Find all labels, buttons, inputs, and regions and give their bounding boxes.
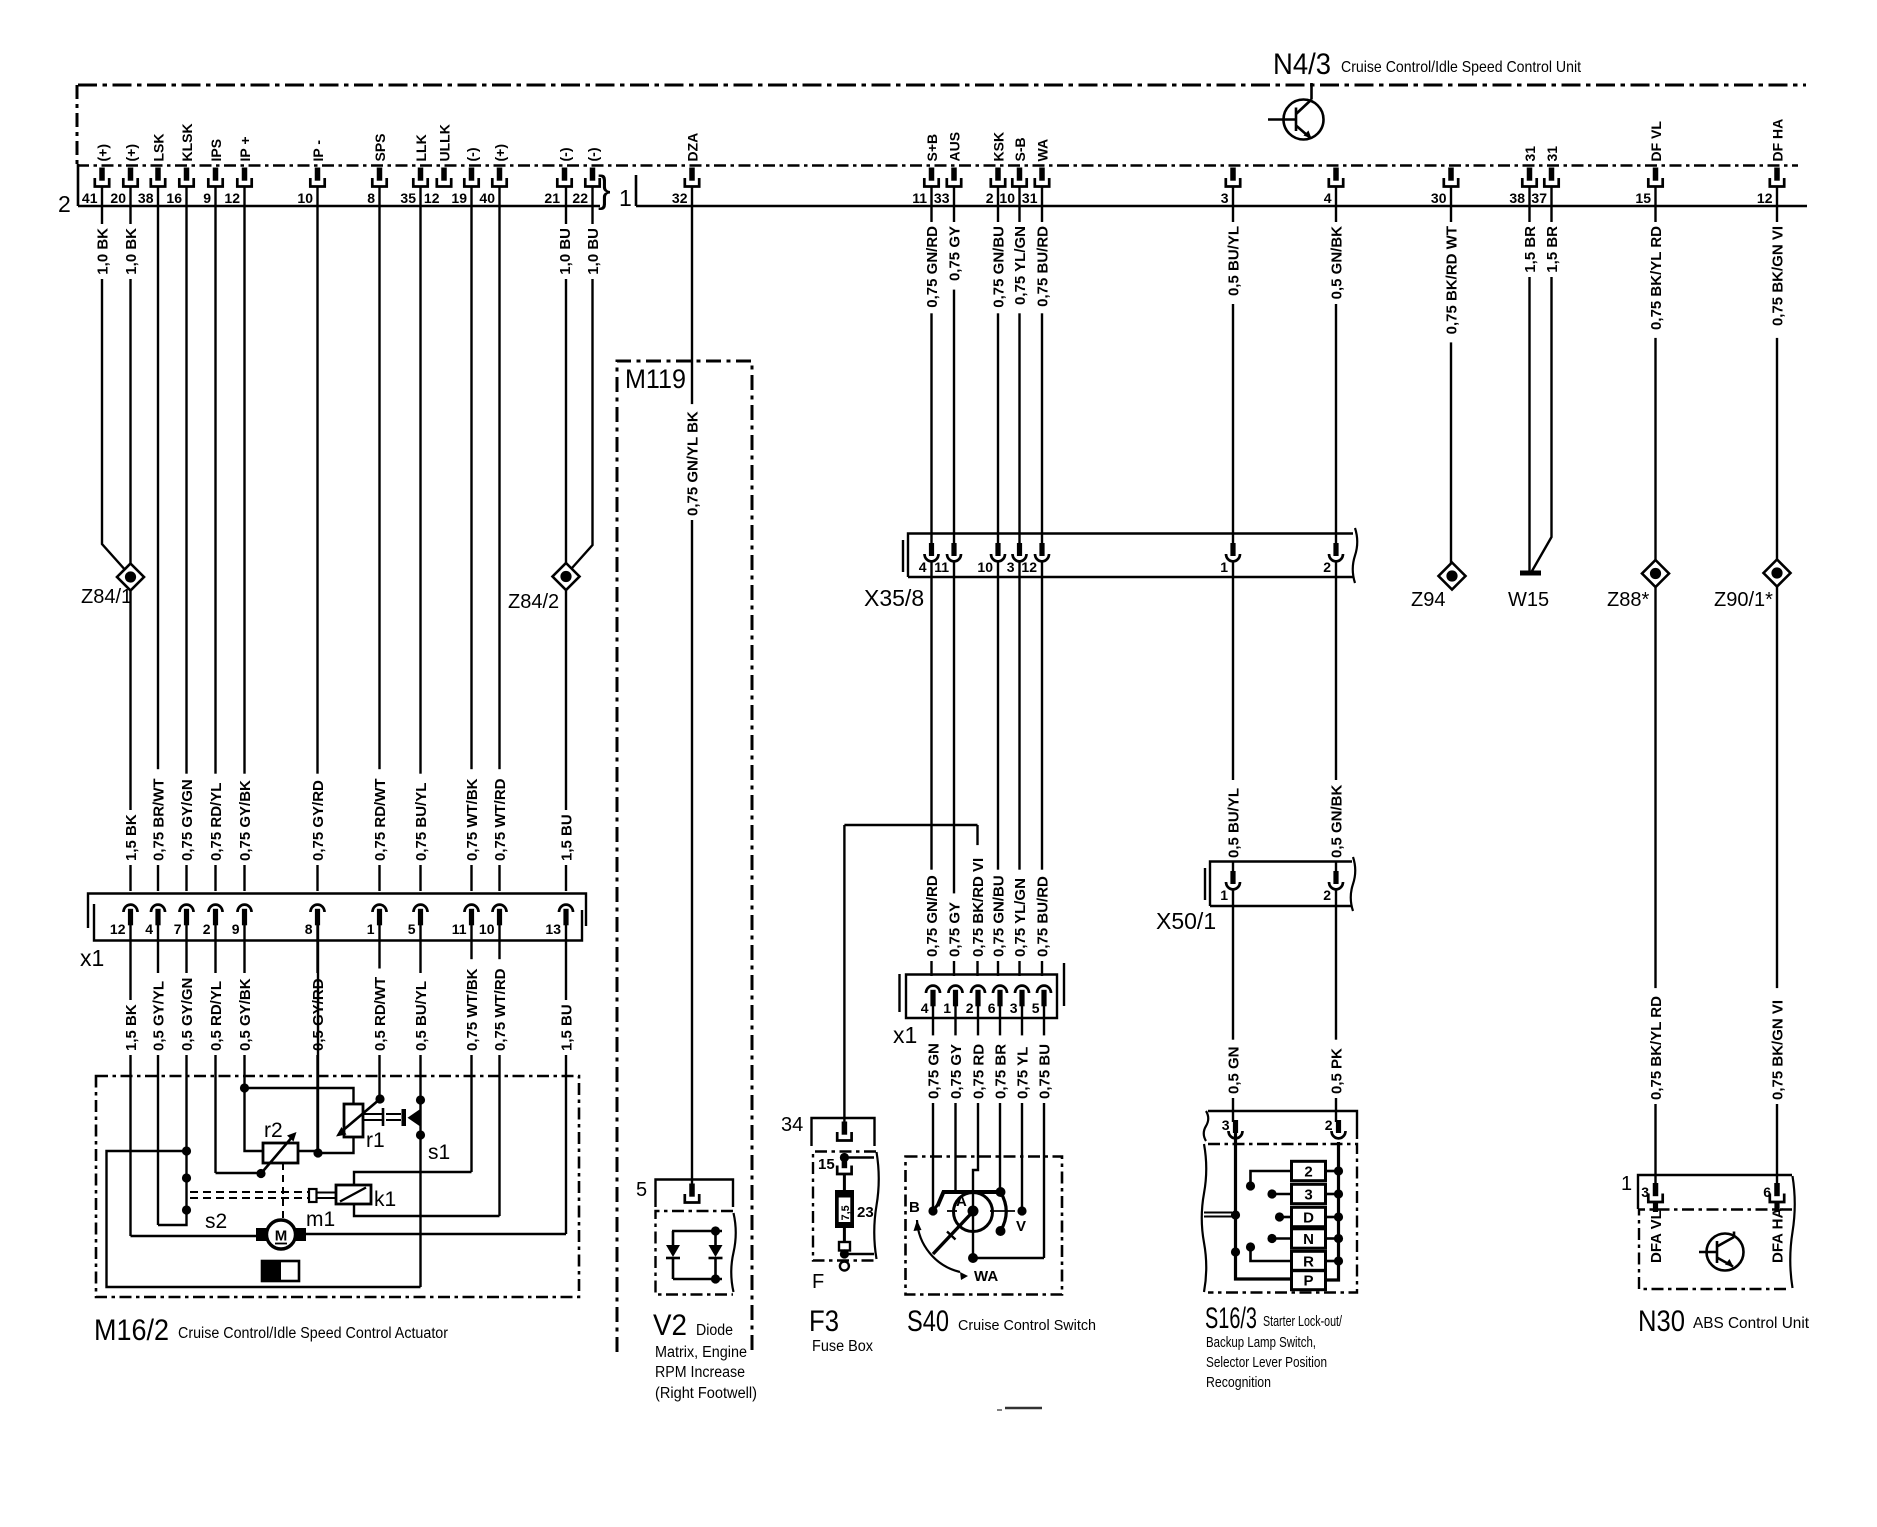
svg-text:W15: W15: [1508, 589, 1549, 611]
wire Z84/2 to connector x1 pin 13: [565, 590, 567, 891]
svg-text:0,75 BK/RD VI: 0,75 BK/RD VI: [970, 858, 987, 957]
wire 0,5 BU/YL from x1 into M16/2: [419, 925, 421, 1287]
S16/3 position resistor 2: [1292, 1161, 1326, 1180]
control unit N4/3 box bottom edge: [77, 164, 1798, 167]
S16/3 position resistor N: [1292, 1229, 1326, 1248]
svg-text:0,75 GY: 0,75 GY: [948, 1044, 965, 1099]
svg-text:23: 23: [857, 1204, 874, 1221]
wire 0,5 RD/YL from x1 into M16/2: [214, 925, 216, 1173]
svg-text:M16/2: M16/2: [94, 1314, 169, 1347]
wire from N4/3 pin 37 to W15: [1532, 187, 1552, 572]
svg-text:2: 2: [1304, 1164, 1312, 1181]
N30 transistor symbol: [1699, 1232, 1744, 1271]
svg-text:3: 3: [1010, 1000, 1018, 1016]
svg-text:3: 3: [1007, 559, 1015, 575]
svg-text:0,75 WT/BK: 0,75 WT/BK: [464, 968, 481, 1051]
engine M119 box: [617, 361, 752, 1352]
connector x1 pin 2: [209, 905, 223, 912]
svg-text:38: 38: [138, 190, 154, 206]
svg-text:S-B: S-B: [1012, 137, 1028, 161]
svg-text:P: P: [1303, 1273, 1313, 1290]
svg-text:0,75 YL: 0,75 YL: [1014, 1047, 1031, 1099]
svg-text:11: 11: [912, 190, 927, 206]
S16/3 position resistor 3: [1292, 1184, 1326, 1203]
diode 1: [672, 1231, 675, 1245]
F3 pin terminal upper: [842, 1122, 848, 1135]
svg-text:5: 5: [636, 1179, 647, 1201]
pin 9 (IPS) of N4/3: [213, 168, 219, 181]
S40 contact B: [928, 1206, 937, 1215]
wire 0,75 WT/BK from x1 into M16/2: [470, 925, 472, 1172]
connector x1 (S40) pin 5: [1037, 986, 1051, 993]
wire 0,5 PK from X50/1 to S16/3: [1335, 889, 1337, 1122]
svg-text:0,5 GY/YL: 0,5 GY/YL: [150, 981, 167, 1051]
svg-text:32: 32: [672, 190, 688, 206]
svg-text:38: 38: [1509, 190, 1525, 206]
svg-text:V: V: [1016, 1218, 1026, 1235]
wire r2 left terminal: [245, 1088, 264, 1151]
bus line section 1: [635, 175, 638, 206]
V2 internal bus: [672, 1230, 722, 1233]
wire from N4/3 to X35/8 at x=1233: [1232, 187, 1234, 546]
wire 0,5 BU/YL from X35/8 to X50/1: [1232, 561, 1234, 872]
svg-text:WA: WA: [1034, 139, 1050, 162]
wire 0,5 GY/BK from x1 into M16/2: [243, 925, 245, 1088]
connector x1 pin 1: [373, 905, 387, 912]
wire from N4/3 to X35/8 at x=1336: [1335, 187, 1337, 546]
pin 33 (AUS) of N4/3: [951, 168, 957, 181]
svg-text:r1: r1: [366, 1129, 385, 1152]
svg-text:20: 20: [110, 190, 126, 206]
pin 4 (unnamed) of N4/3: [1333, 168, 1339, 181]
r1 shaft double line: [363, 1113, 383, 1115]
svg-text:1,0 BK: 1,0 BK: [94, 228, 111, 275]
svg-text:0,5 GN: 0,5 GN: [1225, 1046, 1242, 1094]
wire 0,75 BU/YL from N4/3 to connector x1: [419, 187, 421, 892]
svg-text:V2: V2: [653, 1309, 687, 1342]
wire 0,75 WT/BK from N4/3 to connector x1: [470, 187, 472, 892]
svg-text:M: M: [275, 1228, 288, 1245]
svg-text:KLSK: KLSK: [179, 123, 195, 161]
resistor r2: [263, 1143, 298, 1163]
wire pin22 to splice Z84/2: [572, 187, 593, 569]
svg-text:4: 4: [919, 559, 927, 575]
svg-text:Matrix, Engine: Matrix, Engine: [655, 1344, 747, 1361]
wire 0,75 RD/WT from N4/3 to connector x1: [378, 187, 380, 892]
wire 0,5 GY/RD from x1 into M16/2: [316, 925, 318, 1153]
svg-text:N30: N30: [1638, 1305, 1685, 1338]
wire pin21 to splice Z84/2: [565, 187, 567, 565]
wire DF VL from N4/3 pin 15 to Z88: [1654, 187, 1656, 561]
V2 dashed box: [656, 1211, 734, 1295]
svg-text:AUS: AUS: [946, 132, 962, 162]
pin 38 (LSK) of N4/3: [155, 168, 161, 181]
svg-text:0,75 BU/YL: 0,75 BU/YL: [413, 783, 430, 861]
svg-text:0,75 GY/GN: 0,75 GY/GN: [179, 779, 196, 861]
control unit N4/3 box left edge: [76, 85, 79, 164]
svg-text:12: 12: [110, 921, 126, 937]
svg-text:0,75 BU: 0,75 BU: [1036, 1044, 1053, 1099]
pin 2 (KSK) of N4/3: [995, 168, 1001, 181]
wire DZA from N4/3 pin 32 to V2: [691, 187, 693, 1186]
wire 0,75 WT/RD from N4/3 to connector x1: [498, 187, 500, 892]
svg-text:Z84/2: Z84/2: [508, 591, 559, 613]
wire 0,75 GY/RD from N4/3 to connector x1: [316, 187, 318, 892]
svg-text:41: 41: [82, 190, 98, 206]
pin 12 (DF HA) of N4/3: [1774, 168, 1780, 181]
splice Z84/1: [117, 564, 144, 591]
svg-text:9: 9: [232, 921, 240, 937]
wire 0,75 BK/RD VI from F3 junction to x1 pin 2: [976, 825, 978, 976]
svg-text:SPS: SPS: [372, 133, 388, 161]
svg-text:31: 31: [1544, 146, 1560, 162]
wire from N4/3 to X35/8 at x=954: [953, 187, 955, 546]
N30 pin 6: [1774, 1183, 1780, 1196]
wire 0,75 GY/GN from N4/3 to connector x1: [185, 187, 187, 892]
pin 3 (unnamed) of N4/3: [1230, 168, 1236, 181]
pin 38 (31) of N4/3: [1527, 168, 1533, 181]
svg-text:DF VL: DF VL: [1648, 121, 1664, 162]
wire from N4/3 to X35/8 at x=998: [997, 187, 999, 546]
connector x1 pin 13: [559, 905, 573, 912]
wire 0,75 GY from x1 into S40: [954, 1006, 956, 1192]
svg-text:X35/8: X35/8: [864, 585, 924, 611]
wire 0,75 GN from x1 into S40: [932, 1006, 934, 1208]
ABS control unit N30 upper box: [1638, 1175, 1792, 1209]
svg-text:Z88*: Z88*: [1607, 589, 1649, 611]
wire 1,5 BK from x1 into M16/2: [129, 925, 131, 1236]
svg-text:IP +: IP +: [237, 136, 253, 161]
svg-text:37: 37: [1531, 190, 1547, 206]
S40 contact V: [1017, 1206, 1026, 1215]
connector x1 pin 11: [465, 905, 479, 912]
svg-text:2: 2: [58, 191, 71, 217]
svg-text:0,5 GY/GN: 0,5 GY/GN: [179, 978, 196, 1051]
svg-text:Recognition: Recognition: [1206, 1374, 1271, 1391]
bus line section 2: [78, 205, 600, 208]
wire from N4/3 to X35/8 at x=931.5: [930, 187, 932, 546]
svg-text:WA: WA: [974, 1268, 998, 1285]
diode 2: [714, 1231, 717, 1245]
splice Z84/2: [553, 563, 580, 590]
pin 16 (KLSK) of N4/3: [184, 168, 190, 181]
svg-text:8: 8: [367, 190, 375, 206]
svg-text:KSK: KSK: [990, 132, 1006, 162]
svg-text:0,75 RD/YL: 0,75 RD/YL: [208, 783, 225, 861]
connector X35/8 pin 1: [1226, 554, 1240, 561]
motor m wires: [131, 1235, 257, 1237]
svg-text:Cruise Control/Idle Speed Cont: Cruise Control/Idle Speed Control Unit: [1341, 59, 1581, 76]
wire 0,75 GN/RD from X35/8 to connector x1 of S40: [930, 561, 932, 976]
switch S16/3 upper box: [1208, 1111, 1357, 1139]
svg-text:(+): (+): [492, 144, 508, 162]
S16/3 selector contacts: [1251, 1171, 1292, 1184]
wire pin41 to splice Z84/1: [102, 187, 127, 573]
S40 arc contact segment: [1001, 1192, 1007, 1231]
wire 0,75 GN/BU from X35/8 to connector x1 of S40: [997, 561, 999, 976]
svg-text:0,75 GN/YL BK: 0,75 GN/YL BK: [684, 411, 701, 516]
svg-text:15: 15: [1635, 190, 1651, 206]
svg-text:22: 22: [572, 190, 588, 206]
wire pin20 to splice Z84/1: [129, 187, 131, 566]
svg-text:(-): (-): [585, 148, 601, 162]
wire Z90/1* to N30 pin 6: [1776, 587, 1778, 1186]
svg-text:0,5 GN/BK: 0,5 GN/BK: [1328, 784, 1345, 858]
cruise control switch S40 box: [906, 1157, 1063, 1295]
wire 0,75 BR from x1 into S40: [999, 1006, 1001, 1189]
svg-text:0,75 BU/RD: 0,75 BU/RD: [1034, 226, 1051, 307]
svg-text:35: 35: [400, 190, 416, 206]
pin 31 (WA) of N4/3: [1039, 168, 1045, 181]
svg-text:0,5 RD/WT: 0,5 RD/WT: [372, 977, 389, 1051]
svg-text:0,75 GY: 0,75 GY: [946, 902, 963, 957]
svg-text:0,75 GY/BK: 0,75 GY/BK: [237, 780, 254, 861]
wire Z88* to N30 pin 3: [1654, 587, 1656, 1185]
svg-text:(+): (+): [94, 144, 110, 162]
svg-text:0,75 RD: 0,75 RD: [970, 1044, 987, 1099]
svg-text:0,75 BK/RD WT: 0,75 BK/RD WT: [1443, 226, 1460, 334]
scan artifact dash: [1005, 1407, 1042, 1410]
wire 1,5 BU from x1 into M16/2: [565, 925, 567, 1234]
switch s1 with valve symbol: [402, 1109, 407, 1126]
svg-text:M119: M119: [625, 364, 686, 394]
svg-text:3: 3: [1222, 1117, 1230, 1133]
position indicator: [262, 1261, 299, 1281]
connector x1 of S40: [898, 974, 900, 1012]
diode matrix V2 connector frame: [656, 1180, 734, 1208]
svg-text:2: 2: [1323, 887, 1331, 903]
svg-text:3: 3: [1221, 190, 1229, 206]
connector x1 of M16/2: [88, 894, 586, 929]
svg-text:0,75 GY: 0,75 GY: [946, 226, 963, 281]
svg-text:Cruise Control/Idle Speed Cont: Cruise Control/Idle Speed Control Actuat…: [178, 1325, 448, 1342]
svg-text:12: 12: [1021, 559, 1037, 575]
svg-text:0,75 RD/WT: 0,75 RD/WT: [372, 778, 389, 861]
svg-text:0,5 GY/BK: 0,5 GY/BK: [237, 978, 254, 1051]
svg-text:Z90/1*: Z90/1*: [1714, 589, 1773, 611]
wire 0,5 GY/YL from x1 into M16/2: [157, 925, 159, 1225]
svg-text:S40: S40: [907, 1305, 949, 1338]
svg-text:10: 10: [977, 559, 993, 575]
S16/3 position resistor P: [1292, 1270, 1326, 1289]
svg-text:19: 19: [451, 190, 467, 206]
svg-text:31: 31: [1022, 190, 1038, 206]
svg-text:0,75 WT/RD: 0,75 WT/RD: [492, 968, 509, 1051]
wire 0,75 BU/RD from X35/8 to connector x1 of S40: [1041, 561, 1043, 976]
pin 10 (IP -) of N4/3: [315, 168, 321, 181]
svg-text:1: 1: [367, 921, 375, 937]
svg-text:0,5 BU/YL: 0,5 BU/YL: [413, 981, 430, 1051]
pin 12 (ULLK) of N4/3: [441, 168, 447, 181]
svg-text:33: 33: [934, 190, 950, 206]
S40 wiper lever: [933, 1211, 974, 1255]
connector x1 pin 4: [151, 905, 165, 912]
svg-text:1: 1: [1220, 559, 1228, 575]
pin 32 (DZA) of N4/3: [689, 168, 695, 181]
svg-text:1,0 BU: 1,0 BU: [585, 228, 602, 275]
connector x1 (S40) pin 4: [926, 986, 940, 993]
pin 41 ((+)) of N4/3: [99, 168, 105, 181]
svg-text:1: 1: [943, 1000, 951, 1016]
svg-text:1,5 BU: 1,5 BU: [558, 814, 575, 861]
potentiometer r1: [344, 1104, 363, 1137]
fuse box F3 connector frame 34: [812, 1118, 875, 1146]
svg-text:Diode: Diode: [696, 1322, 733, 1339]
svg-text:x1: x1: [893, 1022, 917, 1048]
svg-text:DFA VL: DFA VL: [1648, 1210, 1665, 1263]
N30 dashed box: [1639, 1210, 1792, 1290]
fuse element 7,5A: [843, 1174, 846, 1191]
wire 0,5 GN/BK from X35/8 to X50/1: [1335, 561, 1337, 872]
fuse box F3 dashed box: [813, 1152, 876, 1261]
svg-text:}: }: [598, 169, 611, 211]
wire from N4/3 to X35/8 at x=1042: [1041, 187, 1043, 546]
svg-text:4: 4: [145, 921, 153, 937]
S40 bridge contact A: [938, 1192, 1001, 1206]
svg-text:DZA: DZA: [684, 133, 700, 162]
wire 0,75 GY from X35/8 to connector x1 of S40: [953, 561, 955, 976]
wire 0,75 BU from x1 into S40: [1043, 1006, 1045, 1258]
S16/3 pin 2: [1332, 1131, 1346, 1138]
svg-text:2: 2: [1323, 559, 1331, 575]
connector X35/8 pin 3: [1013, 554, 1027, 561]
svg-text:0,75 BU/RD: 0,75 BU/RD: [1034, 876, 1051, 957]
svg-text:2: 2: [1325, 1117, 1333, 1133]
wire 0,75 YL/GN from X35/8 to connector x1 of S40: [1018, 561, 1020, 976]
svg-text:0,75 BR: 0,75 BR: [992, 1044, 1009, 1099]
svg-text:(-): (-): [464, 148, 480, 162]
svg-text:1,5 BR: 1,5 BR: [1544, 226, 1561, 273]
F3 terminal 15: [840, 1153, 849, 1162]
svg-text:N: N: [1303, 1231, 1314, 1248]
wire r2 right terminal to node: [298, 1151, 318, 1153]
svg-text:0,5 GN/BK: 0,5 GN/BK: [1328, 226, 1345, 300]
F3 lower terminal: [843, 1228, 846, 1242]
S16/3 common contact line: [1236, 1133, 1292, 1279]
svg-text:r2: r2: [264, 1119, 283, 1142]
transistor symbol inside N4/3: [1268, 83, 1324, 140]
svg-text:1,0 BU: 1,0 BU: [557, 228, 574, 275]
splice Z88*: [1642, 560, 1669, 587]
svg-text:0,75 GN/BU: 0,75 GN/BU: [990, 875, 1007, 957]
svg-text:1,5 BR: 1,5 BR: [1522, 226, 1539, 273]
svg-text:X50/1: X50/1: [1156, 908, 1216, 934]
svg-text:Fuse Box: Fuse Box: [812, 1338, 873, 1355]
connector x1 (S40) pin 2: [971, 986, 985, 993]
svg-text:0,75 BK/GN VI: 0,75 BK/GN VI: [1769, 226, 1786, 326]
wire DF HA from N4/3 pin 12 to Z90/1: [1776, 187, 1778, 560]
connector X35/8 pin 11: [947, 554, 961, 561]
wire from N4/3 pin 38 to W15: [1528, 187, 1530, 572]
svg-text:0,5 RD/YL: 0,5 RD/YL: [208, 981, 225, 1051]
svg-text:40: 40: [479, 190, 495, 206]
wire 0,75 YL from x1 into S40: [1021, 1006, 1023, 1208]
svg-text:0,75 BK/GN VI: 0,75 BK/GN VI: [1769, 1000, 1786, 1100]
svg-text:IP -: IP -: [310, 140, 326, 162]
svg-text:F: F: [812, 1271, 824, 1293]
svg-text:21: 21: [544, 190, 560, 206]
wire s2 loop left: [107, 1151, 421, 1287]
F3 ring terminal: [840, 1262, 849, 1271]
svg-text:RPM Increase: RPM Increase: [655, 1364, 745, 1381]
svg-text:D: D: [1303, 1210, 1314, 1227]
svg-text:31: 31: [1522, 146, 1538, 162]
svg-text:9: 9: [203, 190, 211, 206]
connector x1 (S40) pin 1: [949, 986, 963, 993]
pin 22 ((-)) of N4/3: [590, 168, 596, 181]
svg-text:Cruise Control Switch: Cruise Control Switch: [958, 1317, 1096, 1334]
svg-text:1,0 BK: 1,0 BK: [123, 228, 140, 275]
wire Z84/1 to connector x1 pin 12: [129, 591, 131, 892]
N30 pin 3: [1653, 1183, 1659, 1196]
pin 35 (LLK) of N4/3: [418, 168, 424, 181]
svg-text:1: 1: [619, 185, 632, 211]
svg-text:7: 7: [174, 921, 182, 937]
pin 30 (unnamed) of N4/3: [1448, 168, 1454, 181]
svg-text:Z84/1: Z84/1: [81, 586, 132, 608]
S16/3 position resistor D: [1292, 1207, 1326, 1226]
svg-text:0,75 WT/BK: 0,75 WT/BK: [464, 778, 481, 861]
wire 0,5 RD/WT from x1 into M16/2: [378, 925, 380, 1099]
svg-text:3: 3: [1304, 1187, 1312, 1204]
svg-text:6: 6: [988, 1000, 996, 1016]
svg-text:12: 12: [1757, 190, 1773, 206]
svg-text:ABS Control Unit: ABS Control Unit: [1693, 1315, 1810, 1332]
svg-text:m1: m1: [306, 1208, 335, 1231]
connector X35/8: [902, 540, 904, 572]
connector x1 pin 9: [238, 905, 252, 912]
svg-text:0,75 GN/RD: 0,75 GN/RD: [924, 875, 941, 957]
svg-text:LSK: LSK: [150, 134, 166, 162]
connector x1 pin 8: [311, 905, 325, 912]
pin 20 ((+)) of N4/3: [128, 168, 134, 181]
svg-text:0,5 BU/YL: 0,5 BU/YL: [1225, 788, 1242, 858]
connector X35/8 pin 12: [1035, 554, 1049, 561]
svg-text:(Right Footwell): (Right Footwell): [655, 1385, 757, 1402]
S40 bottom contact to pin 5: [973, 1257, 1044, 1260]
pin 15 (DF VL) of N4/3: [1653, 168, 1659, 181]
svg-text:10: 10: [479, 921, 495, 937]
svg-text:Backup Lamp Switch,: Backup Lamp Switch,: [1206, 1334, 1316, 1351]
svg-text:0,75 GN: 0,75 GN: [925, 1043, 942, 1099]
svg-text:6: 6: [1763, 1184, 1771, 1200]
svg-text:5: 5: [1032, 1000, 1040, 1016]
svg-text:11: 11: [934, 559, 949, 575]
S16/3 right feed line: [1326, 1142, 1339, 1280]
svg-text:0,75 WT/RD: 0,75 WT/RD: [492, 778, 509, 861]
svg-text:5: 5: [408, 921, 416, 937]
svg-text:(-): (-): [557, 148, 573, 162]
svg-text:0,75 BR/WT: 0,75 BR/WT: [150, 778, 167, 861]
connector X50/1: [1204, 868, 1206, 900]
svg-text:S16/3: S16/3: [1205, 1302, 1257, 1335]
r1 wiper arm: [341, 1099, 380, 1132]
wire 0,75 GY/BK from N4/3 to connector x1: [243, 187, 245, 892]
svg-text:2: 2: [986, 190, 994, 206]
pin 12 (IP +) of N4/3: [242, 168, 248, 181]
svg-text:B: B: [909, 1199, 920, 1216]
pin 8 (SPS) of N4/3: [377, 168, 383, 181]
splice Z94: [1439, 563, 1466, 590]
wire 0,5 GN from X50/1 to S16/3: [1232, 889, 1234, 1122]
mechanical link dashed lines: [190, 1191, 309, 1193]
wire 0,75 BR/WT from N4/3 to connector x1: [157, 187, 159, 892]
svg-text:12: 12: [224, 190, 240, 206]
S16/3 pin 3: [1229, 1131, 1243, 1138]
svg-text:(+): (+): [123, 144, 139, 162]
svg-text:0,75 YL/GN: 0,75 YL/GN: [1012, 878, 1029, 957]
svg-text:2: 2: [966, 1000, 974, 1016]
